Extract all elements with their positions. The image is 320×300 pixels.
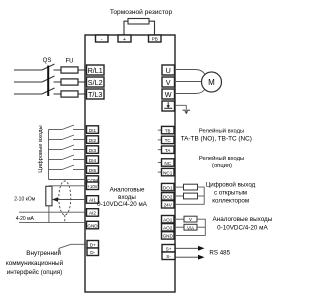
svg-text:D+: D+: [90, 243, 96, 248]
terminal COM: [87, 176, 99, 184]
svg-text:2-10 кОм: 2-10 кОм: [14, 197, 35, 203]
svg-text:Тормозной резистор: Тормозной резистор: [110, 8, 173, 16]
svg-text:U: U: [166, 66, 171, 75]
switch QS blade 2: [42, 76, 55, 82]
QS gang bar: [47, 66, 49, 97]
wire: AI1 to pot wiper (arrow): [55, 199, 87, 201]
relay terminal stubs: [158, 130, 162, 172]
svg-text:интерфейс (опция): интерфейс (опция): [7, 268, 63, 276]
svg-text:S/L2: S/L2: [88, 78, 103, 87]
svg-text:входы: входы: [118, 194, 136, 201]
svg-text:NC: NC: [164, 161, 171, 166]
svg-text:Релейный входы: Релейный входы: [199, 127, 244, 134]
wire: W to motor: [175, 89, 206, 94]
svg-text:коллектором: коллектором: [212, 198, 249, 205]
svg-text:Аналоговые выходы: Аналоговые выходы: [213, 216, 273, 223]
wire AO1 to voltmeter: [175, 218, 184, 220]
wire: supply phase 3: [14, 93, 42, 95]
switch DI3: [49, 149, 63, 151]
wire: pot top to +10V: [49, 185, 87, 188]
svg-text:V: V: [166, 78, 171, 87]
terminal S-: [162, 252, 175, 260]
svg-text:W: W: [165, 90, 172, 99]
svg-text:S+: S+: [166, 247, 172, 252]
svg-text:PB: PB: [152, 37, 158, 42]
wire: fuse2 to S/L2: [78, 81, 87, 83]
svg-text:с открытым: с открытым: [214, 189, 247, 196]
svg-text:DI1: DI1: [89, 128, 97, 133]
svg-text:TA-TB (NO), TB-TC (NC): TA-TB (NO), TB-TC (NC): [181, 136, 252, 143]
terminal R/L1: [87, 65, 105, 75]
wire: blade2 to fuse2: [54, 81, 62, 83]
svg-text:Внутренний: Внутренний: [26, 249, 61, 257]
terminal DI1: [87, 126, 99, 134]
wire: + terminal to resistor: [124, 21, 128, 35]
wire: U to motor: [175, 70, 206, 76]
wire: GND line: [19, 221, 87, 223]
switch QS blade 3: [42, 88, 55, 94]
svg-text:Цифровой выход: Цифровой выход: [206, 182, 256, 189]
wire: blade3 to fuse3: [54, 93, 62, 95]
svg-text:4-20 мА: 4-20 мА: [16, 216, 35, 222]
terminal V: [162, 77, 175, 87]
svg-text:24V: 24V: [164, 203, 173, 208]
svg-text:R/L1: R/L1: [88, 66, 103, 75]
terminal 24V: [162, 201, 175, 208]
svg-text:AO1: AO1: [163, 218, 173, 223]
inverter body U1: [85, 35, 175, 292]
terminal AI1: [87, 196, 99, 204]
wire: fuse3 to T/L3: [78, 93, 87, 95]
terminal DO2: [162, 193, 175, 200]
svg-text:DI5: DI5: [89, 168, 97, 173]
terminal NO1: [162, 159, 175, 166]
wire DO2 to load2: [175, 195, 184, 197]
wire: pot bottom to GND line: [48, 206, 50, 223]
terminal +10V: [87, 182, 99, 190]
motor M: [202, 72, 222, 92]
callout line to D+: [59, 244, 87, 252]
voltmeter V: [184, 216, 197, 222]
fuse FU2: [61, 79, 78, 85]
svg-text:RS 485: RS 485: [209, 249, 230, 256]
terminal D-: [87, 248, 99, 256]
wire S- arrow: [176, 256, 200, 258]
svg-text:DO1: DO1: [163, 185, 173, 190]
svg-text:GND: GND: [87, 223, 98, 228]
wire AO2 to V/A meter: [175, 226, 184, 228]
terminal AO2: [162, 224, 175, 231]
wire meters to GND rail: [175, 219, 206, 235]
DI bus vertical: [48, 130, 50, 180]
terminal DI2: [87, 136, 99, 144]
switch DI5: [49, 169, 63, 171]
wire: blade1 to fuse1: [54, 69, 62, 71]
terminal PB: [149, 35, 162, 42]
wire: V to motor: [175, 81, 202, 83]
svg-text:(опция): (опция): [212, 163, 232, 169]
svg-text:DI2: DI2: [89, 138, 97, 143]
svg-text:AI2: AI2: [89, 211, 96, 216]
terminal W: [162, 89, 175, 99]
terminal S/L2: [87, 77, 105, 87]
switch QS blade 1: [42, 64, 55, 70]
svg-text:T/L3: T/L3: [88, 90, 102, 99]
wire: 4-20mA AI2 line: [19, 211, 87, 213]
terminal GND (right): [162, 232, 175, 239]
svg-text:0-10VDC/4-20 мА: 0-10VDC/4-20 мА: [97, 201, 148, 208]
svg-text:QS: QS: [43, 58, 52, 64]
svg-text:D-: D-: [90, 250, 95, 255]
svg-text:FU: FU: [66, 59, 74, 65]
terminal TC: [162, 136, 175, 143]
wire COM: [49, 179, 87, 181]
terminal PE: [162, 101, 175, 111]
svg-text:TC: TC: [165, 138, 172, 143]
svg-text:V: V: [189, 217, 192, 222]
svg-text:TB: TB: [165, 128, 171, 133]
switch DI4: [49, 159, 63, 161]
resistor R-brake: [128, 19, 149, 25]
switch DI2: [49, 139, 63, 141]
terminal T/L3: [87, 89, 105, 99]
fuse FU1: [61, 67, 78, 73]
svg-text:Релейный входы: Релейный входы: [199, 155, 244, 162]
svg-text:M: M: [208, 78, 215, 87]
terminal TB: [162, 126, 175, 133]
shield ellipse (screened cable): [59, 181, 71, 215]
svg-text:0-10VDC/4-20 мА: 0-10VDC/4-20 мА: [217, 225, 268, 232]
svg-text:TA: TA: [165, 148, 171, 153]
terminal U: [162, 65, 175, 75]
svg-text:NC1: NC1: [163, 170, 173, 175]
fuse FU3: [61, 91, 78, 97]
wire DO1 to load1: [175, 186, 184, 188]
svg-text:Цифровые входы: Цифровые входы: [38, 125, 44, 172]
switch DI1: [49, 129, 63, 131]
svg-text:V/A: V/A: [187, 225, 194, 230]
svg-text:GND: GND: [163, 234, 174, 239]
wire: fuse1 to R/L1: [78, 69, 87, 71]
load resistor DO2: [184, 193, 198, 199]
wire: supply phase 2: [14, 81, 42, 83]
terminal DI4: [87, 156, 99, 164]
svg-text:S-: S-: [166, 254, 171, 259]
svg-text:DI3: DI3: [89, 148, 97, 153]
terminal S+: [162, 245, 175, 253]
wire: PE to ground: [175, 105, 187, 109]
meter V/A: [184, 224, 197, 230]
terminal DO1: [162, 183, 175, 190]
terminal AI2: [87, 209, 99, 217]
terminal NC1: [162, 168, 175, 175]
PE earth symbol (arrow onto bar): [164, 102, 172, 108]
svg-text:коммуникационный: коммуникационный: [6, 259, 64, 267]
arrowhead wiper: [52, 197, 58, 202]
terminal DI3: [87, 146, 99, 154]
svg-text:AO2: AO2: [163, 226, 173, 231]
terminal AO1: [162, 216, 175, 223]
terminal D+: [87, 241, 99, 249]
svg-text:+10V: +10V: [88, 184, 98, 189]
svg-text:DO2: DO2: [163, 195, 173, 200]
svg-text:+: +: [123, 37, 126, 43]
terminal GND (left): [87, 221, 99, 229]
terminal DI5: [87, 166, 99, 174]
potentiometer body: [46, 186, 52, 206]
load resistor DO1: [184, 184, 198, 190]
ground symbol (bar with arrow): [183, 109, 190, 111]
terminal - (DC bus minus): [96, 35, 109, 42]
wire S+ arrow: [176, 247, 200, 249]
svg-text:AI1: AI1: [89, 198, 96, 203]
wire: resistor to PB terminal: [149, 21, 155, 35]
svg-text:DI4: DI4: [89, 158, 97, 163]
terminal + (DC bus plus): [118, 35, 131, 42]
wire: supply phase 1: [14, 69, 42, 71]
svg-text:Аналоговые: Аналоговые: [110, 187, 145, 194]
wire loads to 24V rail: [175, 187, 204, 204]
shield drain to GND: [64, 215, 66, 222]
terminal TA: [162, 146, 175, 153]
